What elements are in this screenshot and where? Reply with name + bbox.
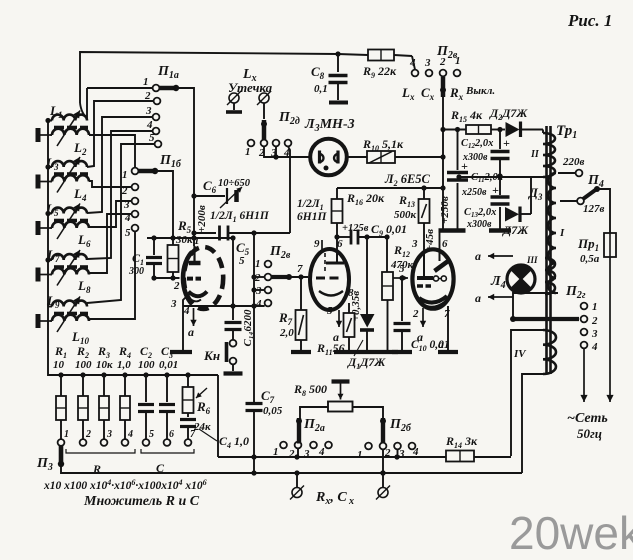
wire node-306: [183, 303, 265, 308]
wire P1a c2 to L3: [87, 101, 154, 167]
button Kn: [203, 340, 243, 374]
terminal Rx left: [290, 473, 304, 500]
label Tr1: [556, 123, 577, 141]
svg-text:7: 7: [444, 308, 450, 320]
wire row-456: [218, 454, 511, 459]
svg-text:С₁₄6200: С₁₄6200: [242, 309, 254, 347]
svg-text:+125в: +125в: [342, 223, 369, 234]
winding II: [530, 130, 555, 178]
wire P1b c1 to L2: [89, 135, 135, 168]
svg-text:1: 1: [122, 169, 128, 181]
wire HT bus: [440, 97, 445, 229]
inductor L5: [48, 208, 87, 214]
svg-text:Д7Ж: Д7Ж: [502, 223, 529, 237]
resistor R4: [117, 344, 131, 439]
capacitor C5: [194, 226, 290, 268]
triode U1a anode: [189, 246, 201, 263]
capacitor C2: [138, 344, 155, 439]
terminal T4: [38, 268, 52, 282]
svg-text:30к: 30к: [175, 234, 193, 246]
resistor R15: [450, 108, 491, 134]
label U1a type: [210, 210, 270, 224]
wire C13 rail: [497, 173, 502, 229]
resistor R10: [346, 137, 444, 163]
wire plate row: [337, 185, 443, 190]
inductor L7: [48, 254, 87, 260]
label L6: [77, 232, 91, 249]
wire left bus: [45, 118, 61, 375]
label L2: [73, 140, 87, 157]
ground bar C13: [489, 228, 511, 233]
label +200v: [196, 205, 208, 233]
resistor R9: [362, 50, 397, 81]
svg-text:R15 4к: R15 4к: [450, 108, 483, 124]
svg-text:9: 9: [314, 238, 320, 250]
svg-text:1: 1: [245, 146, 251, 158]
switch contacts P3: [58, 429, 196, 446]
svg-text:3: 3: [170, 298, 177, 310]
winding IV: [513, 330, 556, 374]
switch contacts P2a: [273, 417, 332, 460]
triode U1b cathode: [319, 291, 343, 296]
wire winding IV top: [511, 330, 543, 456]
wire P2d to L3 tube: [264, 146, 310, 159]
capacitor C7: [246, 388, 283, 473]
svg-text:Rx, C: Rx, C: [315, 490, 347, 507]
potentiometer R8: [293, 382, 353, 412]
label L8: [77, 278, 91, 295]
svg-text:0,1: 0,1: [314, 83, 328, 95]
svg-text:100: 100: [75, 359, 92, 371]
svg-text:+200в: +200в: [196, 205, 208, 233]
svg-text:2: 2: [412, 308, 419, 320]
wire bottom bus: [61, 466, 522, 476]
wire top grid bus: [80, 51, 415, 117]
wire bank right drop: [217, 375, 219, 457]
switch contacts P2d: [245, 110, 300, 159]
svg-text:1: 1: [255, 258, 261, 270]
svg-text:Рис. 1: Рис. 1: [567, 11, 612, 30]
svg-text:3: 3: [303, 448, 310, 460]
svg-text:а: а: [475, 291, 481, 305]
wire C12 rail: [497, 127, 502, 176]
resistor R5: [168, 218, 194, 278]
resistor R12: [382, 243, 414, 351]
terminal T3: [38, 221, 52, 235]
label L7: [46, 247, 60, 264]
inductor L1: [48, 115, 87, 121]
wire lamp a top: [475, 249, 513, 263]
wire P2v c3 stub: [254, 289, 265, 291]
label L10: [71, 329, 89, 346]
terminal T5: [38, 314, 52, 328]
terminal Rx right: [376, 473, 390, 500]
svg-text:C: C: [156, 461, 165, 475]
svg-text:5: 5: [327, 305, 333, 317]
svg-text:2: 2: [591, 315, 598, 327]
svg-text:4: 4: [146, 119, 153, 131]
resistor R6: [183, 375, 212, 433]
label mains: [567, 411, 608, 441]
inductor L3: [48, 161, 87, 167]
inductor L4: [52, 175, 89, 181]
label multiplier row: [43, 478, 207, 492]
winding III: [526, 255, 555, 294]
wire U1a cathode pin3: [170, 295, 192, 352]
wiper P1b: [139, 168, 159, 174]
triode U1a cathode: [189, 292, 208, 302]
switch contacts P2v: [254, 244, 291, 310]
svg-text:Л3МН-3: Л3МН-3: [304, 117, 355, 134]
resistor R3: [96, 344, 113, 439]
eye tube L2 envelope: [412, 249, 453, 308]
capacitor C3: [159, 344, 178, 439]
wire P1b c5 to L10: [89, 231, 135, 319]
wire P1b c4 to L8: [89, 214, 132, 273]
svg-text:1,0: 1,0: [117, 359, 131, 371]
svg-text:R9 22к: R9 22к: [362, 64, 397, 80]
core L9/L10: [54, 312, 88, 316]
svg-text:а: а: [475, 249, 481, 263]
wire P2a c2 down: [297, 448, 299, 457]
inductor L2: [52, 129, 89, 135]
svg-text:Утечка: Утечка: [228, 80, 273, 95]
tap 220v: [558, 156, 585, 176]
svg-text:1: 1: [592, 301, 598, 313]
label +250v: [439, 196, 451, 224]
svg-text:Кн: Кн: [203, 348, 220, 363]
triode U1b envelope: [310, 249, 349, 310]
svg-text:4: 4: [591, 341, 598, 353]
terminal T2: [38, 175, 52, 189]
wire P2v to pin7: [289, 263, 308, 280]
wire C11 rail: [455, 127, 460, 229]
core L1/L2: [54, 126, 88, 130]
ground bar C11: [439, 228, 466, 233]
label U1b pins: [314, 238, 354, 317]
svg-text:470к: 470к: [390, 259, 414, 271]
switch contacts P2g: [565, 284, 598, 353]
svg-text:I: I: [559, 227, 565, 239]
label Ris.1: [567, 11, 612, 30]
svg-text:50гц: 50гц: [577, 426, 602, 441]
capacitor C14: [225, 309, 255, 347]
label RxCx: [315, 490, 354, 507]
svg-text:5: 5: [149, 132, 155, 144]
label +0.35v: [350, 291, 362, 322]
svg-text:3: 3: [255, 285, 262, 297]
resistor R11: [316, 303, 355, 357]
lamp L4: [490, 265, 535, 293]
svg-text:х300в: х300в: [462, 152, 488, 163]
wire P1a c1 to L1: [87, 88, 153, 119]
svg-text:IV: IV: [513, 348, 527, 360]
svg-text:5: 5: [149, 429, 154, 440]
inductor L10: [52, 315, 89, 321]
svg-text:1: 1: [64, 429, 69, 440]
capacitor C10: [392, 275, 450, 353]
svg-text:300: 300: [128, 266, 144, 277]
svg-text:III: III: [526, 255, 538, 265]
label L5: [45, 201, 59, 218]
switch contacts P1a: [143, 64, 179, 147]
svg-text:C4 1,0: C4 1,0: [219, 434, 249, 450]
inductor L9: [48, 301, 87, 307]
svg-text:10к: 10к: [96, 359, 113, 371]
svg-text:х250в: х250в: [461, 187, 487, 198]
svg-text:2: 2: [85, 429, 91, 440]
svg-text:4: 4: [255, 298, 262, 310]
svg-text:0,05: 0,05: [263, 405, 283, 417]
wire P1a c4 to L7: [87, 131, 153, 259]
svg-text:II: II: [530, 149, 540, 160]
svg-text:3: 3: [591, 328, 598, 340]
wire P1a c5 to L9: [87, 144, 155, 303]
capacitor C11: [447, 159, 503, 198]
wiper P1a: [160, 85, 180, 91]
tap 127v: [560, 198, 605, 215]
svg-text:6: 6: [442, 238, 448, 250]
diode D3: [502, 177, 543, 237]
wire P2g to mains: [580, 348, 587, 402]
capacitor C4: [180, 413, 249, 450]
labels Lx Cx Rx Vykl: [401, 85, 495, 102]
switch P4: [583, 173, 604, 199]
svg-text:220в: 220в: [562, 156, 585, 168]
label D2: [489, 106, 528, 122]
wire grid node: [151, 275, 179, 280]
wiper P2v-top: [440, 77, 446, 97]
svg-text:C122,0х: C122,0х: [461, 138, 493, 150]
bracket C group: [141, 449, 194, 475]
svg-text:R: R: [92, 462, 101, 476]
svg-text:7: 7: [297, 263, 303, 275]
wire node-238: [147, 235, 236, 240]
tuning arrow L1/L2: [57, 111, 80, 147]
wire U1b heater pin5: [333, 310, 342, 344]
ground bar mid: [334, 350, 398, 354]
wire R8 right: [353, 407, 384, 418]
capacitor C12: [461, 136, 510, 163]
svg-text:5: 5: [125, 227, 131, 239]
eye tube pin7: [438, 306, 458, 352]
tuning arrow L5/L6: [57, 204, 80, 240]
svg-text:2: 2: [173, 280, 180, 292]
inductor L8: [52, 268, 89, 274]
wire P1a c3 to L5: [87, 117, 153, 213]
wiper P3: [36, 446, 64, 473]
svg-text:1: 1: [357, 449, 363, 461]
wiper P2d: [261, 120, 267, 140]
svg-text:0,01: 0,01: [159, 359, 178, 371]
resistor R7: [278, 277, 311, 352]
svg-text:а: а: [188, 325, 194, 339]
resistor R1: [53, 344, 67, 439]
wire P2b c2 down: [380, 449, 385, 475]
svg-text:C9 0,01: C9 0,01: [371, 222, 407, 238]
svg-text:R14 3к: R14 3к: [445, 434, 478, 450]
label D1: [347, 340, 386, 371]
resistor R2: [75, 344, 92, 439]
triode U1a grid: [187, 277, 201, 281]
resistor R13: [394, 188, 436, 252]
svg-text:1: 1: [143, 76, 149, 88]
transformer core: [547, 126, 551, 374]
wire P2d c4 down: [288, 146, 290, 233]
wire P1b c2 to L4: [89, 181, 132, 187]
svg-text:4: 4: [127, 429, 133, 440]
label L1: [49, 103, 62, 120]
svg-text:C10 0,01: C10 0,01: [411, 339, 450, 353]
resistor R14: [445, 434, 478, 462]
svg-text:Л2 6Е5С: Л2 6Е5С: [384, 172, 431, 188]
bar HT end: [450, 230, 452, 233]
svg-text:х10 х100 х104·х106·х100х104 х1: х10 х100 х104·х106·х100х104 х106: [43, 478, 207, 492]
core L3/L4: [54, 172, 88, 176]
label L4: [73, 186, 87, 203]
svg-text:Д1Д7Ж: Д1Д7Ж: [347, 355, 386, 371]
wiper P2a: [296, 418, 302, 444]
svg-text:~Сеть: ~Сеть: [567, 411, 608, 426]
label multiplier title: [83, 494, 200, 509]
triode U1b anode: [326, 252, 344, 263]
wiper P2g: [510, 316, 579, 322]
svg-text:Множитель R и С: Множитель R и С: [83, 494, 200, 509]
svg-text:3: 3: [145, 105, 152, 117]
capacitor C8: [311, 54, 348, 103]
terminal Lx-leak left: [226, 91, 242, 112]
label U1a pins: [170, 235, 200, 317]
triode U1b grid: [316, 277, 342, 280]
tuning arrow L7/L8: [57, 250, 80, 286]
switch contacts P2b: [357, 417, 419, 461]
svg-text:3: 3: [106, 429, 112, 440]
label Lx leak: [228, 67, 273, 95]
wire P1a output: [176, 88, 197, 246]
svg-text:2: 2: [288, 448, 295, 460]
wire HT to R15: [440, 127, 466, 132]
svg-text:+: +: [503, 136, 510, 150]
terminal T1: [38, 128, 52, 142]
eye tube target: [417, 250, 448, 307]
switch contacts P2v-top: [409, 44, 461, 76]
wiper P2v: [271, 274, 292, 280]
wire P4 to fuse: [597, 189, 610, 233]
triode U1b pin9 stub: [321, 240, 323, 250]
wire P2b c3 down: [397, 449, 399, 457]
wire U1a heater pin4: [188, 308, 197, 339]
wire lamp a bottom: [475, 291, 513, 305]
svg-text:10: 10: [53, 359, 65, 371]
triode U1b heater: [324, 253, 326, 273]
terminal Lx-leak right: [257, 91, 271, 119]
tuning arrow L3/L4: [57, 157, 80, 193]
winding I: [548, 173, 565, 293]
diode D2: [491, 122, 543, 138]
svg-text:х300в: х300в: [466, 219, 492, 230]
svg-text:10÷650: 10÷650: [218, 178, 251, 189]
wire fuse to mains: [606, 257, 613, 402]
eye tube pin2: [412, 308, 426, 344]
fuse Pr1: [577, 233, 616, 265]
svg-text:6: 6: [169, 429, 174, 440]
wire P2v c2 stub: [254, 276, 265, 278]
svg-text:+250в: +250в: [439, 196, 451, 224]
watermark: [509, 507, 633, 559]
label L9: [46, 293, 60, 310]
svg-text:5: 5: [239, 255, 245, 267]
bracket R group: [66, 449, 135, 476]
svg-text:0,5а: 0,5а: [580, 253, 600, 265]
svg-text:100: 100: [138, 359, 155, 371]
capacitor C1: [128, 238, 162, 278]
wire P1b c3 to L6: [89, 201, 132, 227]
core L5/L6: [54, 219, 88, 223]
wire winding II bottom: [456, 174, 543, 179]
svg-text:2,0: 2,0: [279, 327, 294, 339]
triode U1a envelope: [183, 247, 223, 309]
svg-text:2: 2: [254, 272, 261, 284]
inductor L6: [52, 222, 89, 228]
svg-text:Д2Д7Ж: Д2Д7Ж: [489, 106, 528, 122]
capacitor C13: [464, 183, 510, 230]
capacitor C9: [337, 222, 407, 245]
wire rail-254: [251, 233, 256, 402]
eye tube pin3 lead: [411, 238, 418, 250]
label L3: [45, 155, 59, 172]
svg-text:R8 500: R8 500: [293, 382, 327, 398]
core L7/L8: [54, 265, 88, 269]
svg-text:x: x: [348, 496, 354, 507]
svg-text:R16 20к: R16 20к: [346, 191, 385, 207]
svg-text:500к: 500к: [394, 209, 417, 221]
svg-text:+: +: [492, 183, 499, 197]
svg-text:Выкл.: Выкл.: [465, 85, 495, 97]
svg-text:1/2Л1 6Н1П: 1/2Л1 6Н1П: [210, 210, 270, 224]
wire C14 rail: [232, 238, 234, 320]
wire to eye grid: [393, 263, 409, 281]
svg-text:127в: 127в: [583, 203, 605, 215]
eye tube pin6: [440, 231, 449, 250]
wire R8 left: [300, 407, 328, 418]
tuning arrow L9/L10: [57, 297, 80, 333]
wire bank bus: [48, 372, 218, 377]
label L2-6E5S: [384, 172, 431, 188]
wire C9 node down: [386, 237, 388, 272]
resistor R16: [332, 188, 386, 250]
svg-text:R10 5,1к: R10 5,1к: [362, 137, 404, 153]
label U1b type: [297, 198, 327, 223]
neon lamp L3: [304, 117, 355, 175]
svg-text:C132,0х: C132,0х: [464, 207, 496, 219]
svg-text:3: 3: [411, 238, 418, 250]
svg-text:3: 3: [424, 57, 431, 69]
capacitor C6 trimmer: [194, 178, 251, 208]
svg-text:6Н1П: 6Н1П: [297, 211, 327, 223]
wire P1b output: [155, 171, 173, 238]
wire winding IV bottom: [522, 374, 543, 473]
switch contacts P1b: [121, 153, 182, 239]
wiper P2b: [380, 418, 386, 444]
svg-text:20wek: 20wek: [509, 507, 633, 559]
diode D1: [360, 237, 375, 351]
svg-text:4: 4: [409, 57, 416, 69]
wire winding I bottom to P2g: [513, 293, 558, 319]
